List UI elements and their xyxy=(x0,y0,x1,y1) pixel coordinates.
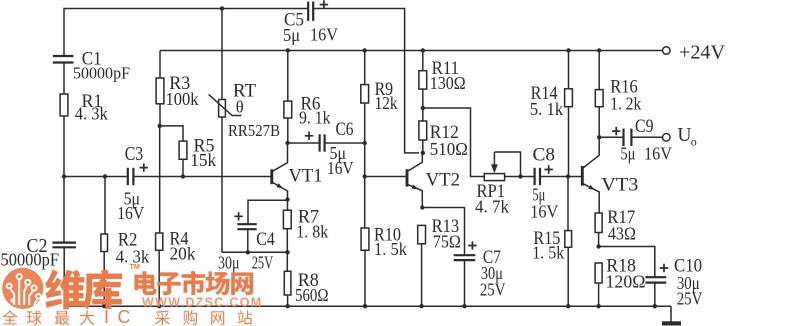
thermistor RT xyxy=(209,94,242,117)
node D R11-R12 junction xyxy=(421,106,425,110)
resistor R14 xyxy=(565,89,573,107)
capacitor C7 xyxy=(454,255,476,260)
wire node C to VT2 base row xyxy=(364,143,366,177)
resistor R7 xyxy=(283,210,291,229)
capacitor C6 xyxy=(320,134,325,151)
wire R8 to ground rail xyxy=(287,295,289,306)
node C VT2 base junction xyxy=(363,174,367,178)
resistor R3 xyxy=(156,78,164,104)
wire node to R8 xyxy=(286,252,288,271)
svg-text:50000pF: 50000pF xyxy=(1,250,60,270)
svg-text:4. 7k: 4. 7k xyxy=(475,197,509,217)
resistor R4 xyxy=(156,233,163,250)
wire top rail from C1 to C5 xyxy=(64,9,308,57)
svg-text:WWW.DZSC.COM: WWW.DZSC.COM xyxy=(142,296,262,310)
svg-text:43Ω: 43Ω xyxy=(608,224,636,244)
node VT1 emitter xyxy=(285,197,289,201)
label C8 value xyxy=(530,185,558,222)
wire C7 to ground rail xyxy=(464,260,466,306)
svg-text:130Ω: 130Ω xyxy=(430,73,466,93)
capacitor C5 xyxy=(308,2,313,21)
svg-text:VT2: VT2 xyxy=(426,170,461,191)
node A left column xyxy=(62,174,66,178)
svg-text:VT3: VT3 xyxy=(601,175,638,196)
wire R13 to ground rail xyxy=(421,244,423,306)
svg-text:C4: C4 xyxy=(256,230,275,250)
svg-text:510Ω: 510Ω xyxy=(430,139,468,159)
svg-text:I: I xyxy=(104,307,109,326)
wire RT column bottom to feedback row xyxy=(221,117,223,252)
node B R3-R4-R5 junction xyxy=(158,124,162,128)
node E C8-R14-R15 junction xyxy=(566,174,570,178)
svg-text:C8: C8 xyxy=(533,146,556,166)
svg-text:9. 1k: 9. 1k xyxy=(299,108,331,128)
node C6 right xyxy=(363,141,367,145)
resistor R6 xyxy=(284,101,292,118)
svg-text:16V: 16V xyxy=(327,158,354,178)
svg-text:RR527B: RR527B xyxy=(228,121,280,140)
wire VT2 emitter to C7 xyxy=(422,208,464,256)
wire C9 left xyxy=(599,136,623,138)
svg-text:4. 3k: 4. 3k xyxy=(75,104,108,124)
resistor R12 xyxy=(419,121,427,140)
wire VT1 collector to C6 xyxy=(288,142,320,144)
node VT3 collector C9 junction xyxy=(597,135,601,139)
svg-text:C9: C9 xyxy=(635,117,654,137)
node R6 rail xyxy=(286,48,290,52)
svg-text:1. 8k: 1. 8k xyxy=(296,222,328,242)
svg-text:5μ: 5μ xyxy=(283,25,300,45)
resistor R9 xyxy=(361,85,369,103)
node R5 bottom xyxy=(181,174,185,178)
wire R9 top to rail xyxy=(364,51,366,85)
node RT top junction xyxy=(220,6,224,10)
label C9 plus xyxy=(612,127,620,135)
resistor R5 xyxy=(179,141,187,159)
wire C10 to ground rail xyxy=(654,282,656,306)
svg-text:12k: 12k xyxy=(375,93,398,113)
wire VT2 base xyxy=(365,176,407,178)
label C4 plus xyxy=(234,212,242,220)
transistor VT2 xyxy=(407,153,422,208)
wire VT1 emitter to R7 xyxy=(287,200,289,211)
resistor R11 xyxy=(419,71,427,89)
svg-text:16V: 16V xyxy=(530,202,558,222)
wire +24V rail xyxy=(160,50,663,52)
wire C4 bottom xyxy=(247,229,249,252)
terminal +24V xyxy=(663,47,671,55)
wire node E to R15 xyxy=(567,177,569,231)
capacitor C8 xyxy=(535,168,540,185)
wire R4 column through base row xyxy=(159,126,161,233)
label C5 value xyxy=(283,25,338,46)
wire input row left (node to C3) xyxy=(64,176,128,178)
wire R4 to ground rail xyxy=(158,250,160,306)
svg-text:100k: 100k xyxy=(166,89,199,109)
node R7-R8 junction xyxy=(285,250,289,254)
wire C5 right plate down to VT2 collector node xyxy=(313,9,419,153)
svg-text:C6: C6 xyxy=(336,120,354,140)
svg-text:θ: θ xyxy=(236,98,244,117)
svg-text:15k: 15k xyxy=(190,150,216,170)
label C3 value xyxy=(117,189,144,224)
label C6 plus xyxy=(305,132,313,140)
svg-text:U: U xyxy=(677,125,691,146)
svg-text:TM: TM xyxy=(130,262,140,271)
resistor R18 xyxy=(595,263,602,283)
svg-text:560Ω: 560Ω xyxy=(295,285,329,305)
label Uo xyxy=(677,125,696,149)
wire C4 top to VT1 emitter xyxy=(248,200,288,224)
wire R1 to input node xyxy=(63,116,65,177)
wire R16 top to rail xyxy=(598,51,600,90)
wire R10 column xyxy=(364,177,366,229)
wire C9 to output terminal xyxy=(631,136,662,138)
node R9 rail xyxy=(363,48,367,52)
resistor R17 xyxy=(595,213,602,233)
wire feedback row RT-C4-R7R8 xyxy=(222,251,288,253)
capacitor C9 xyxy=(624,129,632,146)
resistor R10 xyxy=(361,228,369,250)
wire C3 to VT1 base xyxy=(134,176,272,178)
svg-text:25V: 25V xyxy=(480,280,506,300)
svg-text:25V: 25V xyxy=(677,289,703,309)
label C7 value xyxy=(480,263,506,300)
node F R17-R18-C10 junction xyxy=(596,244,600,248)
node RP1 wiper junction xyxy=(518,174,522,178)
wire ground rail xyxy=(64,305,671,307)
watermark slogan 全球最大IC采购网站 xyxy=(2,307,252,326)
wire R11 top to rail xyxy=(422,51,424,71)
wire R9 to node C xyxy=(364,103,366,143)
wire R6 top to rail xyxy=(287,51,289,102)
wire node D to RP1 left xyxy=(423,108,485,177)
node VT1 collector xyxy=(285,141,289,145)
wire R2 to ground rail xyxy=(103,252,105,307)
label C9 value xyxy=(620,144,672,164)
wire C2 to ground rail corner xyxy=(63,247,65,306)
watermark 电子市场网 xyxy=(134,271,253,296)
resistor R2 xyxy=(101,234,108,252)
label C6 value xyxy=(327,143,354,178)
watermark logo circle xyxy=(2,268,43,309)
node R16 rail xyxy=(597,48,601,52)
svg-text:30μ: 30μ xyxy=(218,253,240,273)
svg-text:25V: 25V xyxy=(252,253,274,273)
node VT2 emitter xyxy=(420,205,424,209)
wire RT column top xyxy=(221,9,223,100)
resistor R16 xyxy=(595,90,603,107)
wire input node to C2 xyxy=(63,177,65,243)
node R14 rail xyxy=(566,48,570,52)
wire R15 to ground rail xyxy=(567,247,569,306)
wire node B to R5 xyxy=(160,126,183,141)
wire R3 to node B xyxy=(159,104,161,126)
wire C1 to R1 xyxy=(63,63,65,95)
label C4 value xyxy=(218,253,273,273)
capacitor C1 xyxy=(53,56,74,63)
svg-text:C: C xyxy=(118,307,131,326)
svg-text:16V: 16V xyxy=(117,203,144,223)
resistor R1 xyxy=(60,94,68,116)
resistor R15 xyxy=(565,231,572,248)
svg-text:16V: 16V xyxy=(644,144,672,164)
capacitor C2 xyxy=(52,243,76,248)
wire C6 to R9 column xyxy=(325,142,365,144)
wire R14 top to rail xyxy=(568,51,570,89)
wire R11 to R12 xyxy=(422,89,424,121)
label C3 plus xyxy=(140,163,148,171)
capacitor C4 xyxy=(237,224,256,229)
wire R12 to VT2 collector node xyxy=(422,140,424,153)
transistor VT1 xyxy=(272,143,288,200)
svg-text:16V: 16V xyxy=(310,25,338,45)
label C7 plus xyxy=(468,241,476,249)
label C5 plus xyxy=(320,0,328,8)
svg-text:1. 2k: 1. 2k xyxy=(610,94,641,114)
svg-text:+24V: +24V xyxy=(679,43,725,64)
potentiometer RP1 xyxy=(484,152,520,181)
label C10 value xyxy=(677,273,703,309)
svg-text:1. 5k: 1. 5k xyxy=(374,239,407,259)
svg-text:20k: 20k xyxy=(170,244,196,264)
capacitor C3 xyxy=(128,168,134,185)
svg-text:50000pF: 50000pF xyxy=(73,64,130,83)
node C4 bottom xyxy=(246,250,250,254)
ground rail junction dots xyxy=(102,304,657,308)
resistor R8 xyxy=(284,271,291,295)
svg-text:VT1: VT1 xyxy=(289,166,323,187)
wire R16 to VT3 collector node xyxy=(598,107,600,138)
transistor VT3 xyxy=(582,137,599,214)
wire C8 to VT3 base xyxy=(540,176,582,178)
wire R18 to ground rail xyxy=(598,283,600,306)
ground symbol xyxy=(662,306,681,325)
wire rail corner down to R3 xyxy=(159,51,161,79)
terminal Uo xyxy=(663,134,671,142)
wire R14 to node E xyxy=(568,107,570,177)
node VT2 collector xyxy=(421,151,425,155)
svg-text:120Ω: 120Ω xyxy=(606,272,646,292)
label C8 plus xyxy=(545,165,553,173)
node R2 top xyxy=(103,174,107,178)
wire R6 to VT1 collector xyxy=(287,118,289,143)
wire R17 to node F xyxy=(598,233,600,247)
label C10 plus xyxy=(660,264,668,272)
wire R7 to node R7-R8 xyxy=(286,229,288,253)
wire RP1 right to C8 xyxy=(505,176,535,178)
resistor R13 xyxy=(418,225,426,243)
svg-text:o: o xyxy=(691,135,697,149)
svg-text:5μ: 5μ xyxy=(620,144,635,164)
svg-text:75Ω: 75Ω xyxy=(433,232,461,252)
svg-text:5. 1k: 5. 1k xyxy=(530,99,564,119)
wire node F to C10 xyxy=(599,247,655,278)
watermark brand 维库 xyxy=(45,269,122,309)
svg-text:1. 5k: 1. 5k xyxy=(532,243,564,263)
svg-text:C3: C3 xyxy=(125,144,144,165)
capacitor C10 xyxy=(645,277,666,282)
wire R2 column top xyxy=(104,177,106,235)
wire R5 to base row xyxy=(182,159,184,176)
wire R10 to ground rail xyxy=(364,250,366,306)
node R11 rail xyxy=(421,48,425,52)
